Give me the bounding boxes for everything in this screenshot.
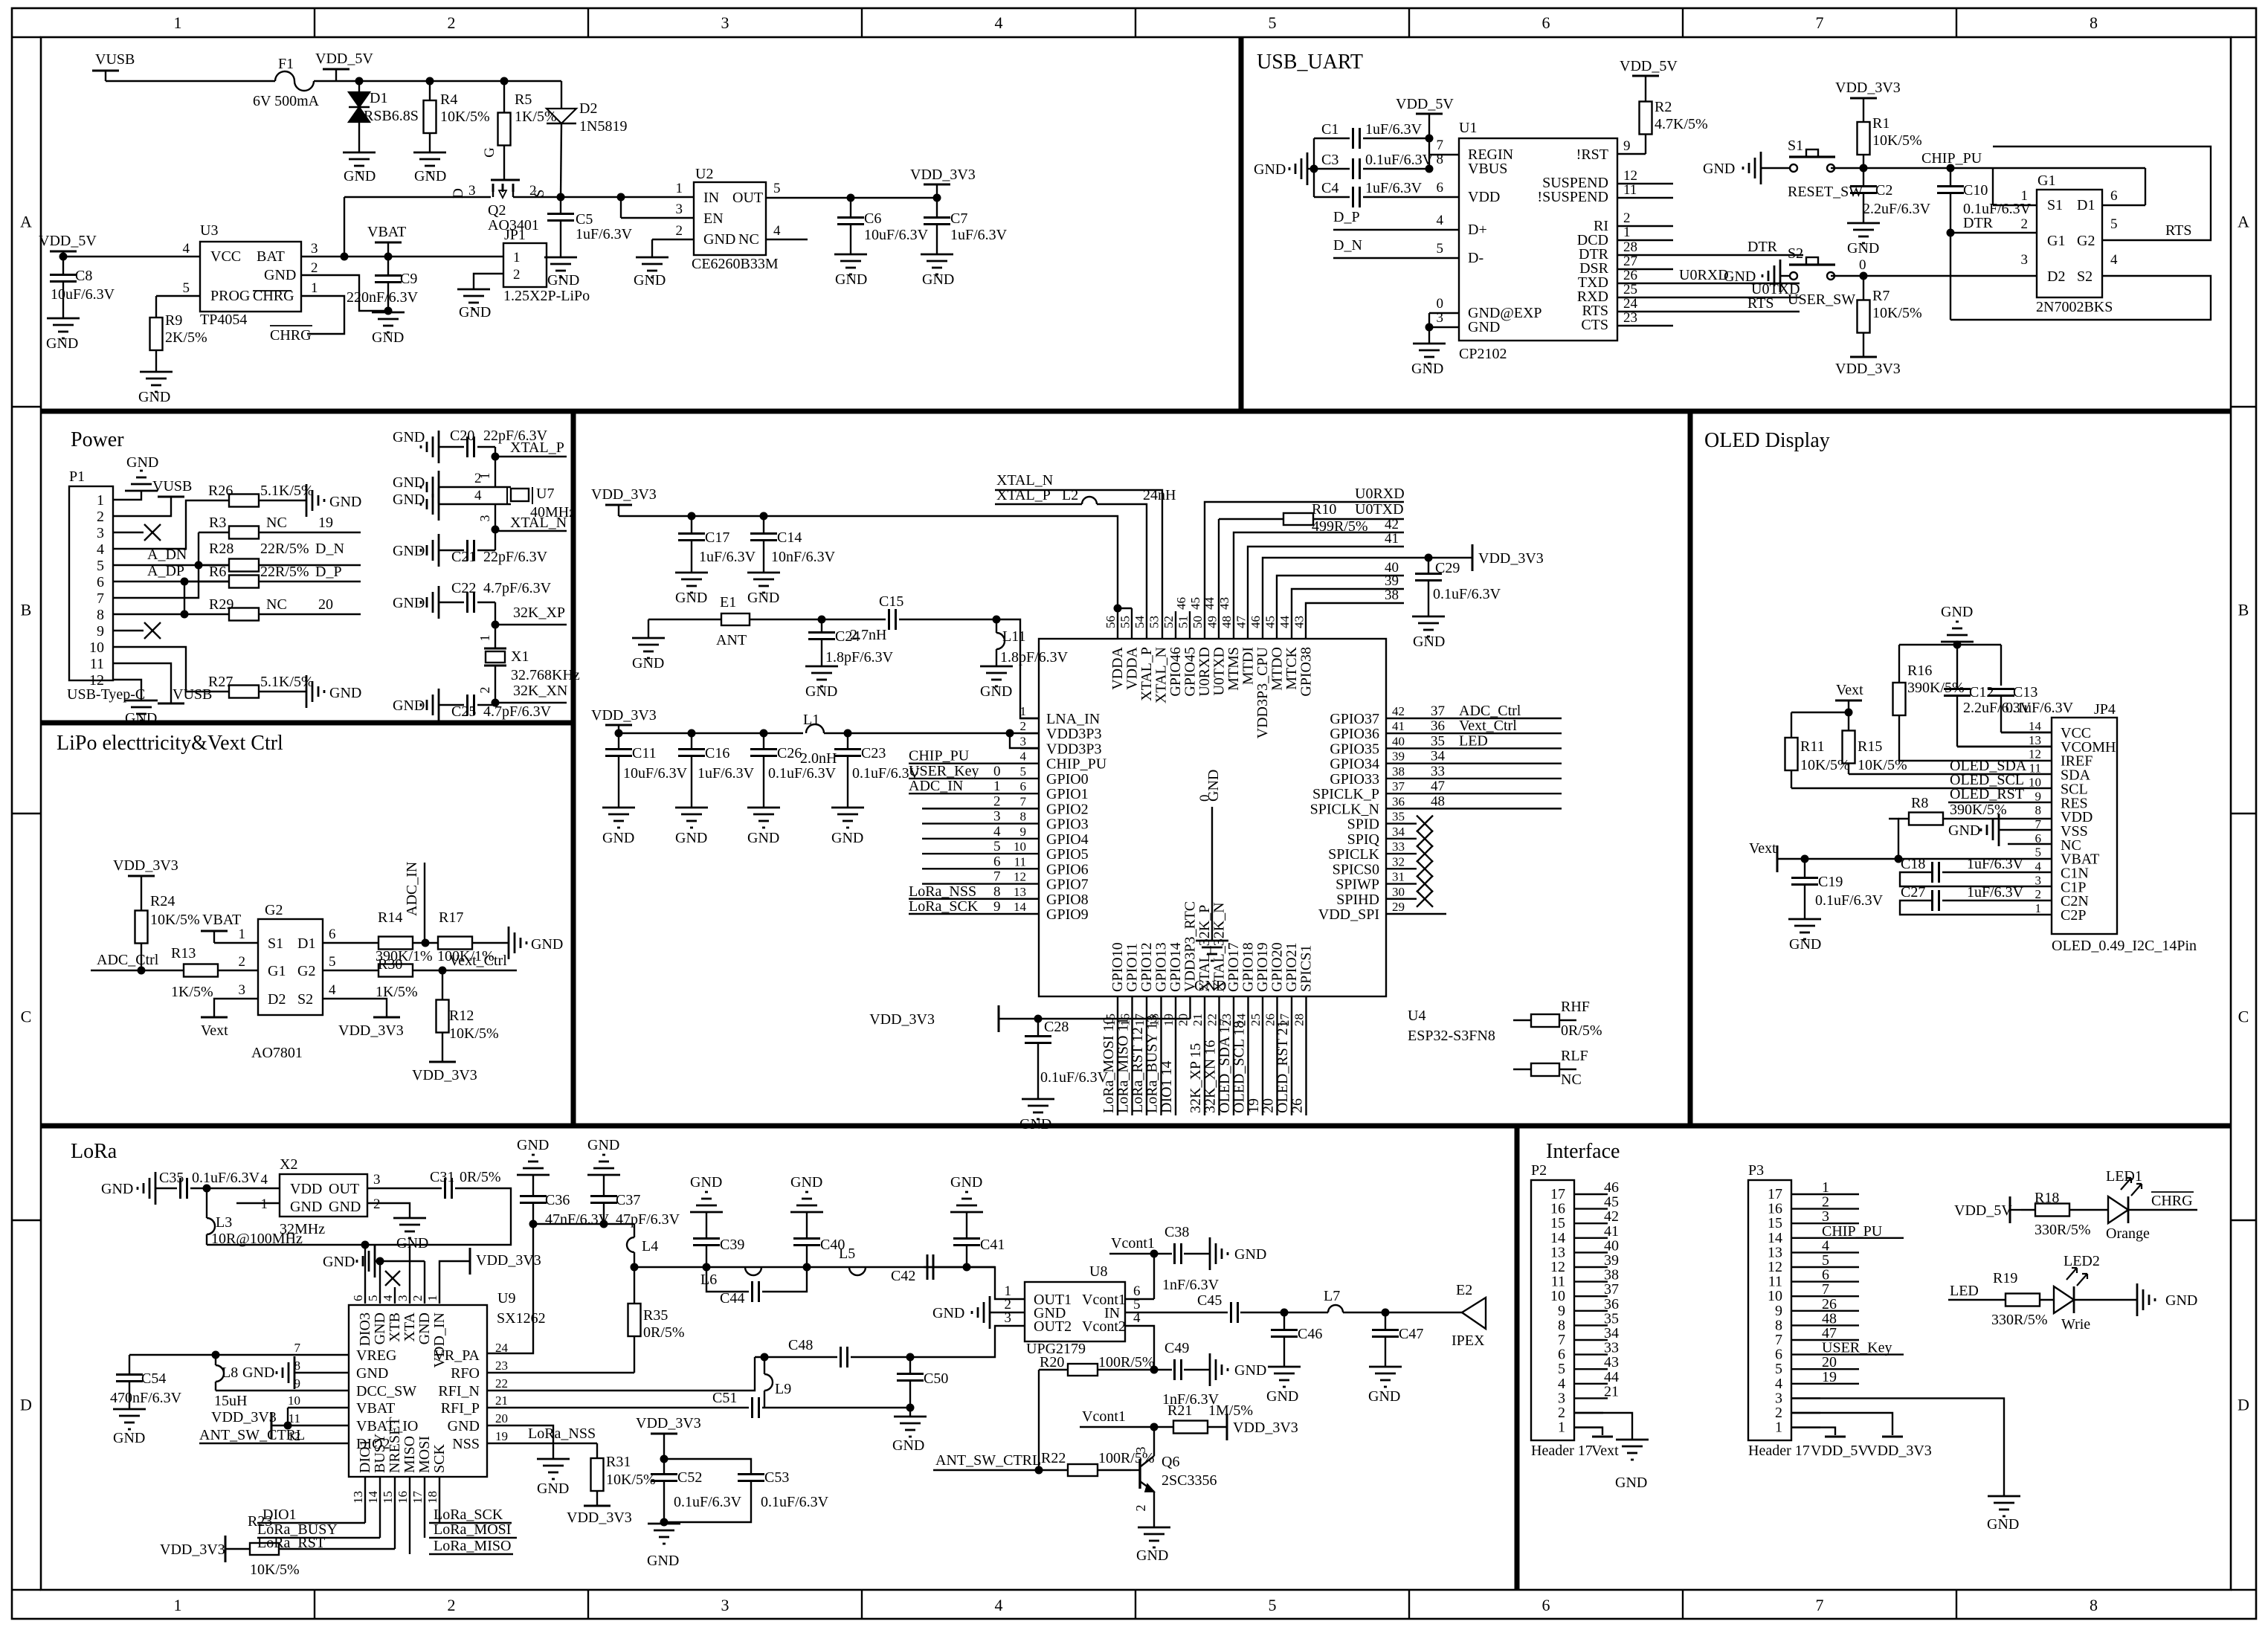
crystal X1 <box>484 648 506 650</box>
svg-text:3: 3 <box>373 1172 381 1188</box>
wire U4 right row 35 <box>1405 747 1562 749</box>
svg-text:18: 18 <box>425 1491 439 1504</box>
svg-text:28: 28 <box>1623 239 1637 255</box>
svg-text:GND: GND <box>126 454 158 471</box>
svg-text:NRESET: NRESET <box>387 1417 403 1473</box>
svg-text:10K/5%: 10K/5% <box>606 1472 656 1488</box>
ground under C11 <box>602 807 635 809</box>
svg-text:DIO3: DIO3 <box>357 1312 373 1347</box>
svg-text:Wrie: Wrie <box>2061 1316 2090 1333</box>
svg-text:5: 5 <box>366 1295 380 1302</box>
svg-text:D_N: D_N <box>315 541 344 557</box>
P2 pin 5 stub <box>1574 1368 1603 1370</box>
resistor R31 <box>596 1443 598 1458</box>
svg-text:47nF/6.3V: 47nF/6.3V <box>545 1211 610 1228</box>
inductor L7 <box>1284 1312 1328 1313</box>
IC U1 CP2102 <box>1459 138 1617 341</box>
P1 pin 2 stub <box>113 515 130 517</box>
svg-text:VBUS: VBUS <box>1468 161 1507 177</box>
ground under C9 <box>372 312 405 314</box>
svg-text:C35: C35 <box>159 1170 184 1186</box>
resistor R12 <box>442 970 443 1000</box>
svg-text:C11: C11 <box>632 745 657 761</box>
svg-text:VDD_3V3: VDD_3V3 <box>476 1252 541 1269</box>
svg-text:VDD_5V: VDD_5V <box>39 233 97 249</box>
ground E1 <box>648 619 649 638</box>
junction <box>631 1263 639 1272</box>
inductor L6 <box>745 1267 761 1275</box>
stub X2 pin1 <box>236 1202 280 1204</box>
svg-text:5: 5 <box>97 558 104 574</box>
P2 net 43 <box>1603 1368 1608 1370</box>
svg-text:52: 52 <box>1162 616 1176 628</box>
svg-text:VBAT: VBAT <box>202 912 241 928</box>
svg-text:R30: R30 <box>378 956 402 973</box>
frame column tick <box>861 8 863 37</box>
svg-text:G1: G1 <box>2037 173 2055 189</box>
svg-text:43: 43 <box>1292 616 1307 628</box>
svg-text:S2: S2 <box>297 991 313 1008</box>
svg-text:GND: GND <box>1234 1362 1266 1379</box>
resistor R35 <box>634 1267 635 1304</box>
resistor RHF <box>1513 1019 1531 1021</box>
svg-text:CHIP_PU: CHIP_PU <box>1822 1223 1883 1240</box>
capacitor C44 loop <box>706 1267 749 1292</box>
wire U3 CHRG pin1 <box>301 296 344 334</box>
svg-text:45: 45 <box>1188 597 1202 610</box>
svg-text:R31: R31 <box>606 1454 631 1470</box>
svg-text:10uF/6.3V: 10uF/6.3V <box>51 286 115 303</box>
svg-text:2: 2 <box>1020 719 1027 733</box>
svg-text:C9: C9 <box>400 271 417 287</box>
svg-text:C12: C12 <box>1969 684 1994 700</box>
svg-text:51: 51 <box>1176 616 1191 628</box>
wire Vcont1 to pin6 <box>1153 1254 1155 1299</box>
svg-text:56: 56 <box>1104 616 1118 628</box>
svg-text:GND: GND <box>1266 1388 1298 1405</box>
resistor R3 <box>199 532 229 533</box>
svg-text:24: 24 <box>1623 296 1638 312</box>
resistor R28 <box>199 564 229 566</box>
wire U4 right row 34 <box>1405 762 1562 764</box>
junction <box>1425 165 1434 173</box>
svg-text:GPIO1: GPIO1 <box>1046 786 1089 802</box>
wire U4 left row 8 <box>922 822 1020 824</box>
svg-text:10K/5%: 10K/5% <box>1872 132 1922 149</box>
svg-text:30: 30 <box>1392 885 1405 899</box>
svg-text:46: 46 <box>1174 597 1188 610</box>
svg-text:Q6: Q6 <box>1162 1454 1179 1470</box>
ground under C19 <box>1788 918 1821 921</box>
svg-text:GND: GND <box>1847 240 1879 257</box>
P2 pin 15 stub <box>1574 1222 1603 1224</box>
svg-text:3: 3 <box>2021 252 2029 268</box>
capacitor C14 <box>763 516 764 534</box>
svg-text:GND: GND <box>2165 1292 2197 1309</box>
crystal U7 <box>511 489 529 501</box>
svg-text:20: 20 <box>495 1411 508 1425</box>
svg-text:U8: U8 <box>1089 1263 1107 1280</box>
P2 pin 17 stub <box>1574 1193 1603 1195</box>
svg-text:22R/5%: 22R/5% <box>260 564 309 580</box>
svg-text:R9: R9 <box>165 312 182 329</box>
svg-text:0.1uF/6.3V: 0.1uF/6.3V <box>768 765 837 782</box>
wire main RF row <box>634 1266 924 1268</box>
capacitor C24 <box>821 619 822 633</box>
svg-text:R16: R16 <box>1907 663 1932 679</box>
junction <box>1425 135 1434 143</box>
P3 pin 17 stub <box>1791 1193 1820 1195</box>
connector P2 Header 17 <box>1531 1180 1574 1440</box>
svg-text:45: 45 <box>1263 616 1278 628</box>
capacitor C35 <box>179 1178 181 1199</box>
svg-text:1uF/6.3V: 1uF/6.3V <box>576 226 633 242</box>
svg-text:1K/5%: 1K/5% <box>171 984 213 1000</box>
svg-text:12: 12 <box>1014 870 1026 884</box>
svg-text:1: 1 <box>174 1596 182 1614</box>
svg-text:48: 48 <box>1220 616 1234 628</box>
svg-text:GPIO34: GPIO34 <box>1330 756 1379 773</box>
svg-text:1.25X2P-LiPo: 1.25X2P-LiPo <box>503 288 590 304</box>
svg-text:C2: C2 <box>1875 182 1892 199</box>
svg-text:GND: GND <box>329 685 361 701</box>
capacitor C36 <box>520 1195 547 1197</box>
svg-text:SPICS0: SPICS0 <box>1333 861 1379 877</box>
junction <box>906 1353 915 1362</box>
wire DIO2 <box>199 1443 349 1444</box>
svg-text:SX1262: SX1262 <box>497 1310 546 1327</box>
svg-text:CP2102: CP2102 <box>1459 346 1507 362</box>
svg-text:PROG: PROG <box>210 288 250 304</box>
P3 pin 14 stub <box>1791 1237 1820 1239</box>
P2 net 21 <box>1603 1397 1608 1399</box>
svg-text:12: 12 <box>1623 168 1637 184</box>
stub pin 2 <box>1617 225 1673 227</box>
svg-text:GND: GND <box>323 1254 355 1270</box>
ground under R4 <box>413 152 446 154</box>
net label OLED_RST <box>1948 802 2052 803</box>
capacitor C21 <box>466 540 468 561</box>
wire U4 right row 47 <box>1405 793 1562 794</box>
svg-text:1: 1 <box>993 779 1001 794</box>
wire 32k xn <box>477 704 495 706</box>
stub pin 27 <box>1617 268 1673 270</box>
svg-text:L6: L6 <box>700 1272 717 1288</box>
svg-text:E2: E2 <box>1456 1282 1472 1298</box>
svg-text:VDD_5V: VDD_5V <box>1954 1202 2012 1219</box>
svg-text:VDD_5V: VDD_5V <box>1811 1443 1869 1459</box>
svg-text:C: C <box>21 1008 32 1026</box>
svg-text:47pF/6.3V: 47pF/6.3V <box>616 1211 680 1228</box>
wire R2 to !RST <box>1617 153 1646 155</box>
svg-text:IN: IN <box>703 190 719 206</box>
svg-text:D: D <box>2238 1396 2249 1414</box>
svg-text:5: 5 <box>2035 845 2042 860</box>
svg-text:C20: C20 <box>450 428 474 444</box>
svg-text:0.1uF/6.3V: 0.1uF/6.3V <box>192 1170 260 1186</box>
resistor R29 <box>184 613 229 615</box>
net label LoRa_MISO bottom <box>1131 996 1133 1115</box>
svg-text:VDD3P3: VDD3P3 <box>1046 726 1101 742</box>
P1 pin 10 stub <box>113 646 130 648</box>
svg-text:C21: C21 <box>451 549 476 565</box>
P2 pin 12 stub <box>1574 1266 1603 1268</box>
svg-text:GND: GND <box>1019 1116 1051 1133</box>
wire P1 pin8 <box>130 613 184 615</box>
wire R11 to SCL row <box>1791 787 2052 789</box>
svg-text:VDD_3V3: VDD_3V3 <box>869 1011 935 1028</box>
net label LoRa_NSS U4 <box>909 898 1020 900</box>
junction <box>557 193 565 202</box>
capacitor C38 <box>1154 1253 1172 1254</box>
svg-text:5: 5 <box>329 954 336 970</box>
svg-text:C51: C51 <box>712 1390 737 1406</box>
svg-text:SPID: SPID <box>1347 816 1379 833</box>
net label ADC_IN U4 <box>909 793 1020 794</box>
svg-text:33: 33 <box>1431 764 1445 779</box>
ground under C5 <box>544 257 577 259</box>
junction <box>59 253 68 261</box>
svg-text:36: 36 <box>1392 794 1405 808</box>
svg-text:D_P: D_P <box>315 564 342 580</box>
junction <box>1801 855 1809 863</box>
wire R15 to SDA row <box>1849 773 2052 775</box>
svg-text:CHIP_PU: CHIP_PU <box>1046 756 1107 773</box>
svg-text:5: 5 <box>773 181 781 196</box>
svg-text:2: 2 <box>97 509 104 525</box>
svg-text:NSS: NSS <box>452 1436 480 1452</box>
junction <box>361 1241 370 1249</box>
svg-text:0R/5%: 0R/5% <box>1561 1022 1602 1039</box>
wire DTR net <box>1617 254 1803 256</box>
wire U1 GND pins <box>1429 312 1459 314</box>
P3 pin 5 stub <box>1791 1368 1820 1370</box>
svg-text:D1: D1 <box>2077 197 2095 213</box>
svg-text:CTS: CTS <box>1581 317 1608 333</box>
svg-text:VDD_5V: VDD_5V <box>1620 58 1678 74</box>
svg-text:14: 14 <box>1014 900 1027 914</box>
junction <box>426 77 434 86</box>
power bar <box>605 504 632 506</box>
wire BUSY stub <box>379 1477 381 1538</box>
power bar VDD_3V3 R31 <box>584 1505 611 1507</box>
wire L3 row <box>207 1244 410 1246</box>
svg-text:6: 6 <box>2110 188 2118 204</box>
svg-text:U2: U2 <box>695 166 713 182</box>
svg-text:C54: C54 <box>141 1370 166 1387</box>
svg-text:25: 25 <box>1623 282 1637 297</box>
svg-text:34: 34 <box>1392 825 1405 839</box>
net label CHIP_PU U4 <box>909 762 1020 764</box>
svg-text:13: 13 <box>1014 885 1026 899</box>
P2 net 35 <box>1603 1324 1608 1326</box>
svg-text:R22: R22 <box>1041 1450 1066 1466</box>
svg-text:36: 36 <box>1431 718 1445 734</box>
svg-text:F1: F1 <box>278 56 294 72</box>
wire lower rail <box>619 732 803 734</box>
svg-text:D_N: D_N <box>1333 237 1362 254</box>
net label bottom pin 16 <box>1218 996 1220 1115</box>
svg-text:GND: GND <box>125 710 157 726</box>
svg-text:U1: U1 <box>1459 120 1477 136</box>
svg-text:10K/5%: 10K/5% <box>150 912 200 928</box>
svg-text:U7: U7 <box>536 486 554 502</box>
svg-text:R29: R29 <box>209 596 233 613</box>
P3 net 19 <box>1820 1383 1859 1385</box>
svg-text:19: 19 <box>1162 1014 1176 1026</box>
svg-text:GPIO35: GPIO35 <box>1330 741 1379 757</box>
svg-text:2: 2 <box>311 260 318 276</box>
svg-text:1uF/6.3V: 1uF/6.3V <box>699 549 756 565</box>
antenna feed E1 row <box>648 619 721 620</box>
svg-text:GND: GND <box>892 1437 924 1454</box>
junction <box>1895 855 1903 863</box>
svg-text:C6: C6 <box>864 210 881 227</box>
svg-text:Header 17: Header 17 <box>1748 1443 1810 1459</box>
svg-text:VDD_3V3: VDD_3V3 <box>567 1510 632 1526</box>
svg-text:VDD_3V3: VDD_3V3 <box>591 707 657 724</box>
wire SCK stub <box>439 1477 440 1523</box>
svg-text:1uF/6.3V: 1uF/6.3V <box>950 227 1008 243</box>
capacitor C31 <box>444 1178 446 1199</box>
svg-text:C14: C14 <box>777 529 802 546</box>
svg-text:1: 1 <box>174 13 182 32</box>
svg-text:4: 4 <box>995 1596 1003 1614</box>
P1 pin 3 stub <box>113 532 130 533</box>
ground U2 pin2 <box>636 257 669 259</box>
junction <box>1034 1015 1043 1023</box>
P2 pin 11 stub <box>1574 1280 1603 1282</box>
svg-text:0: 0 <box>1197 795 1213 802</box>
svg-text:C41: C41 <box>980 1237 1005 1253</box>
antenna connector E2 IPEX <box>1462 1298 1486 1329</box>
svg-text:C15: C15 <box>879 593 903 610</box>
junction <box>1150 1366 1159 1374</box>
capacitor C17 <box>691 516 692 534</box>
svg-text:X1: X1 <box>511 648 529 665</box>
svg-text:1: 1 <box>1020 704 1027 718</box>
P2 net 34 <box>1603 1339 1608 1341</box>
svg-text:C7: C7 <box>950 210 967 227</box>
svg-text:41: 41 <box>1385 531 1399 547</box>
svg-text:Interface: Interface <box>1546 1140 1620 1163</box>
P2 pin 16 stub <box>1574 1208 1603 1209</box>
svg-text:10uF/6.3V: 10uF/6.3V <box>623 765 688 782</box>
power bar LED1 <box>2009 1196 2011 1223</box>
svg-text:D2: D2 <box>268 991 286 1008</box>
svg-text:LED2: LED2 <box>2064 1253 2100 1269</box>
wire 41 row <box>1248 547 1404 639</box>
svg-text:R11: R11 <box>1800 738 1825 755</box>
svg-text:RLF: RLF <box>1561 1048 1588 1064</box>
power bar Vext P2 <box>1592 1436 1613 1438</box>
svg-text:8: 8 <box>1020 810 1027 824</box>
svg-text:Header 17: Header 17 <box>1531 1443 1593 1459</box>
section divider Power/LiPo <box>41 721 573 726</box>
svg-text:VDD_3V3: VDD_3V3 <box>211 1409 277 1425</box>
section divider Power right edge <box>571 411 576 1126</box>
svg-text:G1: G1 <box>268 963 286 979</box>
svg-text:GND: GND <box>448 1418 480 1434</box>
svg-text:ANT_SW_CTRL: ANT_SW_CTRL <box>199 1427 305 1443</box>
svg-text:L2: L2 <box>1062 487 1078 503</box>
svg-text:C27: C27 <box>1901 884 1925 901</box>
net label USER_Key U4 <box>909 778 1020 779</box>
svg-text:GND: GND <box>835 271 867 288</box>
svg-text:CE6260B33M: CE6260B33M <box>692 256 779 272</box>
junction <box>1114 605 1122 613</box>
svg-text:1: 1 <box>311 280 318 296</box>
svg-text:GND: GND <box>980 683 1012 700</box>
svg-text:R14: R14 <box>378 909 402 926</box>
svg-text:RFI_P: RFI_P <box>441 1400 480 1417</box>
U4 left pin 6 GPIO1 <box>1020 793 1039 794</box>
svg-text:R23: R23 <box>248 1513 272 1530</box>
capacitor C53 loop <box>664 1459 751 1475</box>
svg-text:ADC_Ctrl: ADC_Ctrl <box>97 952 159 968</box>
U4 left pin 4 CHIP_PU <box>1020 762 1039 764</box>
svg-text:4.7K/5%: 4.7K/5% <box>1655 116 1708 132</box>
svg-text:C3: C3 <box>1321 152 1338 168</box>
svg-text:SCK: SCK <box>431 1444 448 1473</box>
wire VDD3P3 pin3 <box>1010 733 1039 748</box>
U4 left pin 8 GPIO3 <box>1020 822 1039 824</box>
svg-text:3: 3 <box>97 525 104 541</box>
svg-text:37: 37 <box>1431 703 1445 719</box>
svg-text:C5: C5 <box>576 211 593 228</box>
svg-text:SPIHD: SPIHD <box>1336 892 1379 908</box>
svg-text:OLED_0.49_I2C_14Pin: OLED_0.49_I2C_14Pin <box>2052 938 2197 954</box>
svg-text:GND: GND <box>932 1305 964 1321</box>
svg-text:A_DP: A_DP <box>147 563 184 579</box>
P1 pin 9 stub <box>113 630 130 631</box>
svg-text:GND: GND <box>675 830 707 846</box>
svg-text:32: 32 <box>1392 854 1405 869</box>
wire GND pin20 <box>487 1425 553 1459</box>
wire R20 riser <box>1038 1370 1040 1470</box>
wire VDD_SPI stub <box>1405 913 1446 915</box>
wire P1 pin6 A_DP <box>130 581 229 582</box>
svg-text:47: 47 <box>1234 616 1249 629</box>
junction <box>500 77 509 86</box>
ground under C26 <box>747 807 780 809</box>
ground R26 <box>306 484 308 517</box>
svg-text:31: 31 <box>1392 870 1405 884</box>
svg-text:32K_XN: 32K_XN <box>513 683 567 699</box>
svg-text:XTAL_N: XTAL_N <box>510 515 567 531</box>
svg-text:R3: R3 <box>209 515 226 531</box>
svg-text:1: 1 <box>2021 188 2029 204</box>
LED1 diode <box>2084 1209 2108 1211</box>
power bar VDD_3V3 R7 <box>1850 356 1877 358</box>
svg-text:R13: R13 <box>171 945 196 961</box>
svg-text:R24: R24 <box>150 893 175 909</box>
wire P1 pin4 <box>130 500 214 549</box>
ground under C7 <box>921 254 953 256</box>
svg-text:R20: R20 <box>1040 1354 1064 1370</box>
svg-text:DCC_SW: DCC_SW <box>356 1383 416 1399</box>
svg-text:44: 44 <box>1202 597 1217 610</box>
svg-text:7: 7 <box>2035 817 2042 831</box>
net label LoRa_BUSY <box>257 1537 380 1539</box>
svg-text:P1: P1 <box>69 468 85 485</box>
junction <box>617 193 625 202</box>
wire JP4 pin13 <box>1957 746 2052 747</box>
capacitor C3 row <box>1363 168 1429 170</box>
svg-text:JP4: JP4 <box>2094 701 2116 718</box>
junction <box>1310 165 1318 173</box>
svg-text:8: 8 <box>2090 1596 2098 1614</box>
